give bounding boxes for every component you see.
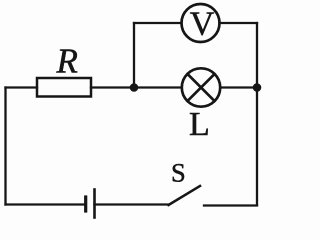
wire battery to switch	[95, 203, 169, 205]
junction node B (right)	[253, 83, 262, 92]
wire top left to voltmeter	[134, 22, 182, 24]
battery positive long plate	[93, 190, 96, 218]
lamp L circle	[182, 68, 220, 106]
wire resistor left lead	[6, 86, 38, 88]
wire right vertical	[256, 23, 258, 205]
wire lamp right lead	[220, 86, 257, 88]
junction node A (left)	[130, 83, 139, 92]
lamp cross diagonal 2	[188, 74, 215, 101]
voltmeter V meter circle	[182, 4, 220, 42]
wire voltmeter branch vertical	[133, 23, 135, 88]
switch S lever arm (open)	[169, 186, 201, 205]
wire left vertical	[4, 88, 6, 205]
svg-text:R: R	[56, 42, 78, 81]
lamp cross diagonal 1	[188, 74, 215, 101]
wire voltmeter to top right corner	[220, 22, 258, 24]
svg-text:L: L	[189, 106, 210, 143]
resistor R	[37, 78, 91, 97]
wire bottom left	[6, 203, 86, 205]
wire resistor right lead	[91, 86, 134, 88]
svg-text:S: S	[171, 157, 186, 187]
wire switch right to corner	[204, 204, 257, 206]
battery negative short plate	[84, 197, 87, 211]
svg-text:V: V	[190, 6, 215, 43]
wire lamp left lead	[134, 86, 182, 88]
